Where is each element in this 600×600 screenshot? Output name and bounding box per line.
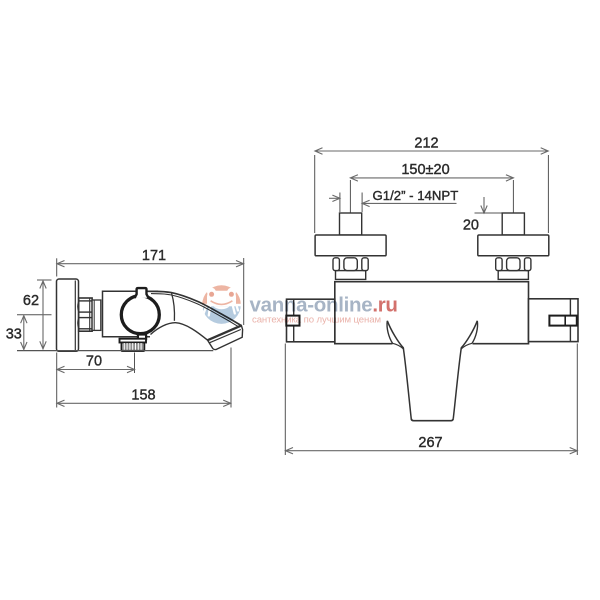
tub spout (front view) [387,321,478,421]
inlet collar cylinder [92,300,101,330]
extension lines for dim 267 [285,344,577,456]
dimension 70 (outlet offset) [57,353,135,372]
shower hose outlet (threaded) [120,339,147,351]
knob bottom tab [138,335,146,340]
svg-text:62: 62 [23,293,39,309]
svg-text:70: 70 [86,353,102,369]
extension lines for dim 171 [57,258,244,325]
left inlet fitting (pipe, flange, nut) [315,213,386,279]
svg-text:150±20: 150±20 [401,162,449,178]
svg-text:vanna-online.ru: vanna-online.ru [250,294,398,317]
svg-text:33: 33 [6,327,22,343]
right handle (temperature) [529,299,579,342]
svg-text:сантехника по лучшим ценам: сантехника по лучшим ценам [252,314,381,325]
dimension 212 (overall width) [315,135,548,154]
extension lines for dim 158 [57,348,231,408]
dimension 150 plus-minus 20 (inlet spacing) [350,162,513,181]
dimension 20 (pipe stub length) [463,197,502,234]
dimension 33 (centre height) [6,316,27,350]
wall plate (escutcheon, side view) [57,279,79,351]
centre lines of inlet fittings [350,180,513,224]
dimension 62 (plate height) [23,281,46,349]
left handle (shower diverter) [286,299,335,342]
knob top tab [135,288,149,298]
thermostat knob circle [121,296,159,334]
watermark logo vanna-online.ru [201,285,398,325]
dimension G1/2 - 14NPT (thread size) [329,188,458,212]
svg-text:G1/2” - 14NPT: G1/2” - 14NPT [373,188,459,203]
hex nut on inlet (side view) [78,298,92,331]
right inlet fitting (pipe, flange, nut) [478,213,549,279]
spout aerator end face [208,325,243,349]
dimension 158 (spout reach) [57,387,231,406]
svg-text:158: 158 [131,387,155,403]
svg-text:20: 20 [463,218,479,234]
svg-text:212: 212 [414,135,438,151]
extension line for dim 70 [134,353,136,374]
dimension 171 (overall length) [57,248,244,267]
wall baseline [17,350,213,352]
extension lines for dims 62 and 33 [17,280,52,315]
mixer body (side view) [103,291,159,336]
svg-text:171: 171 [142,248,166,264]
extension lines for dim 212 [315,155,549,233]
dimension 267 (overall body span) [286,435,578,454]
spout (side view) [148,291,243,349]
mixer body (front view) [335,282,529,344]
svg-text:267: 267 [418,435,442,451]
